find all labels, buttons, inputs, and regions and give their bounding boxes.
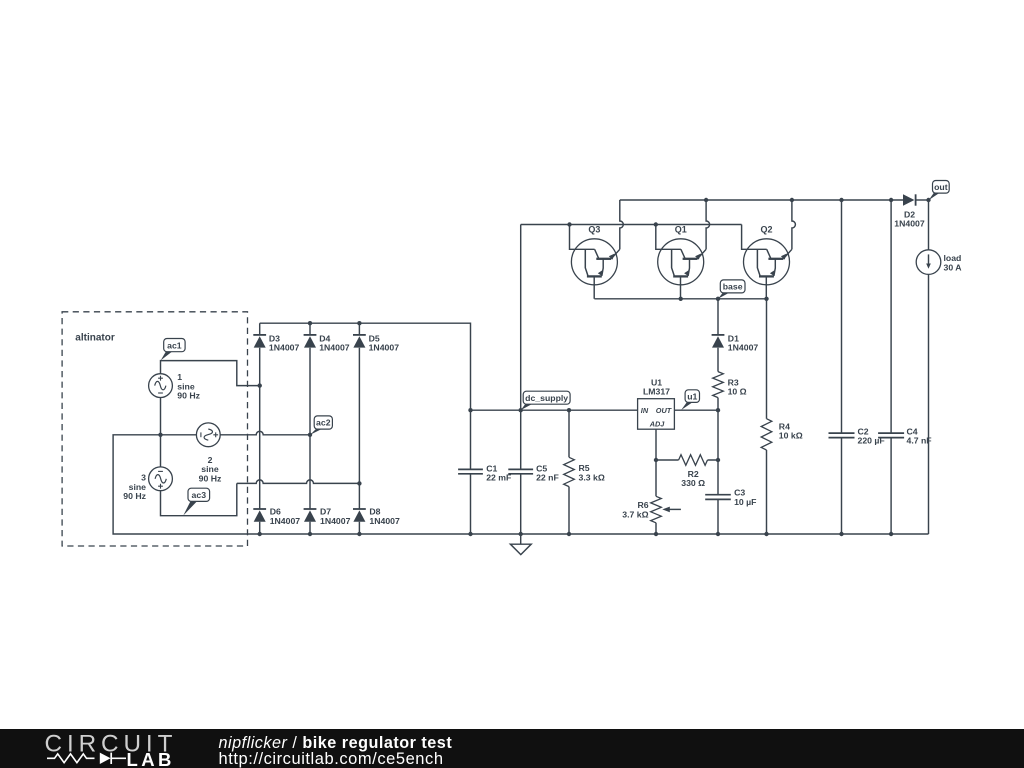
svg-text:10 kΩ: 10 kΩ — [779, 431, 803, 441]
svg-text:10 µF: 10 µF — [734, 497, 756, 507]
footer black bar — [0, 729, 1024, 768]
wire: source3 bottom lead, node ac3, phase 3 to bridge column 3 (hops columns 1,2) — [161, 480, 360, 516]
resistor R3 10 Ω — [713, 372, 747, 398]
wire: bridge column 2 — [309, 323, 311, 534]
voltage source V1 (sine, 90 Hz) — [149, 372, 201, 401]
wire: LM317 ADJ down to R2/R6 node — [655, 429, 657, 460]
svg-text:u1: u1 — [687, 391, 697, 401]
node wye junction dot — [158, 433, 162, 437]
node ac1 (net label) — [161, 339, 185, 361]
node ac3 (net label) — [183, 488, 209, 515]
svg-text:90 Hz: 90 Hz — [199, 474, 222, 484]
svg-text:90 Hz: 90 Hz — [123, 491, 146, 501]
diode D3 1N4007 — [253, 333, 299, 352]
footer title: nipflicker / bike regulator test — [219, 734, 453, 752]
svg-text:4.7 nF: 4.7 nF — [907, 436, 932, 446]
wire: bridge column 1 — [259, 323, 261, 534]
CircuitLab logo resistor-diode glyph and LAB — [47, 749, 175, 768]
altinator enclosure dashed box — [62, 312, 247, 546]
node dots: bottom rail junctions — [258, 532, 894, 536]
capacitor C1 22 mF — [458, 464, 511, 483]
svg-text:30 A: 30 A — [944, 262, 963, 272]
wire: source3 top lead from wye junction — [160, 435, 162, 467]
svg-text:OUT: OUT — [656, 406, 672, 415]
wire: OUT node down to R2 right node — [717, 410, 719, 460]
wire: source1 top lead to node ac1 and to bridge column 1 — [161, 361, 260, 386]
node u1 (net label) — [681, 390, 699, 410]
svg-text:ac2: ac2 — [316, 418, 331, 428]
svg-text:1N4007: 1N4007 — [320, 516, 351, 526]
wire: bridge column 3 — [358, 323, 360, 534]
svg-text:ac1: ac1 — [167, 340, 182, 350]
node dc_supply (net label) — [521, 391, 570, 410]
wire: dc_supply rail to LM317 IN — [471, 409, 638, 411]
diode D7 1N4007 — [304, 507, 351, 526]
svg-text:ADJ: ADJ — [649, 420, 666, 429]
svg-text:Q3: Q3 — [588, 224, 600, 234]
svg-text:http://circuitlab.com/ce5ench: http://circuitlab.com/ce5ench — [219, 750, 444, 768]
wire: LM317 OUT to R3/C3 node — [674, 409, 718, 411]
capacitor C4 4.7 nF — [878, 200, 932, 534]
wire: base rail connecting Q3,Q1,Q2 bases — [594, 298, 766, 300]
wire: D2 cathode to out node — [916, 199, 929, 201]
wire: collector rail (dc_supply to transistor collectors) — [521, 224, 742, 226]
svg-text:10 Ω: 10 Ω — [728, 387, 747, 397]
wire: load bottom lead — [928, 274, 930, 534]
svg-text:dc_supply: dc_supply — [525, 393, 568, 403]
svg-text:22 nF: 22 nF — [536, 473, 559, 483]
footer url — [219, 750, 444, 768]
svg-text:3.3 kΩ: 3.3 kΩ — [579, 472, 605, 482]
CircuitLab logo wordmark CIRCUIT — [45, 731, 178, 758]
wire: bottom ground rail with wye-loop (left) and load return riser (right) — [113, 435, 928, 534]
svg-text:1N4007: 1N4007 — [269, 343, 300, 353]
svg-text:LAB: LAB — [127, 749, 175, 768]
resistor R2 330 Ω — [656, 455, 718, 488]
svg-text:base: base — [723, 282, 743, 292]
wire: emitter top rail to D2 anode — [620, 199, 903, 201]
wire: bridge positive rail down to C1 / dc_supply — [260, 323, 471, 534]
wire: collector rail riser / C5 column down to ground — [520, 225, 522, 535]
capacitor C2 220 µF — [829, 200, 885, 534]
diode D4 1N4007 — [304, 333, 350, 352]
svg-text:22 mF: 22 mF — [486, 473, 511, 483]
op-amp/regulator U1 LM317 — [638, 378, 675, 430]
diode D5 1N4007 — [353, 333, 399, 352]
svg-text:1N4007: 1N4007 — [894, 219, 925, 229]
transistor Q2 (NPN darlington) — [742, 200, 796, 299]
current source load 30 A — [916, 250, 962, 275]
ground symbol — [510, 534, 531, 555]
svg-text:1N4007: 1N4007 — [369, 343, 400, 353]
wire: base rail down through D1/R3 to OUT node — [717, 299, 719, 410]
capacitor C3 10 µF — [705, 460, 756, 534]
svg-text:330 Ω: 330 Ω — [681, 478, 705, 488]
svg-text:3.7 kΩ: 3.7 kΩ — [622, 509, 648, 519]
svg-text:1N4007: 1N4007 — [319, 343, 350, 353]
wire: source1 bottom lead to wye junction — [160, 398, 162, 435]
wire: phase 2 from source2 to bridge column 2 (hops column 1) — [220, 431, 310, 434]
svg-text:out: out — [934, 182, 948, 192]
resistor R5 3.3 kΩ — [564, 410, 605, 534]
diode D2 1N4007 — [894, 194, 925, 228]
svg-text:90 Hz: 90 Hz — [177, 391, 200, 401]
node base (net label) — [718, 280, 745, 299]
diode D1 1N4007 — [712, 334, 759, 353]
node out (net label) — [929, 181, 950, 201]
capacitor C5 22 nF — [508, 464, 559, 483]
svg-text:ac3: ac3 — [192, 490, 207, 500]
wire: out node down to load — [928, 200, 930, 250]
svg-text:altinator: altinator — [75, 333, 115, 344]
node ac2 (net label) — [310, 416, 332, 435]
svg-text:1N4007: 1N4007 — [728, 343, 759, 353]
svg-text:LM317: LM317 — [643, 386, 670, 396]
transistor Q3 (NPN darlington) — [570, 200, 624, 299]
svg-text:Q2: Q2 — [760, 224, 772, 234]
potentiometer R6 3.7 kΩ — [622, 460, 681, 534]
voltage source V3 (sine, 90 Hz) — [123, 467, 172, 501]
node dots: top rail taps and dc_supply taps and ground rail taps — [468, 198, 930, 462]
wire: source2 left lead across wye junction — [161, 434, 197, 436]
transistor Q1 (NPN darlington) — [656, 200, 710, 299]
svg-text:1N4007: 1N4007 — [270, 516, 301, 526]
diode D6 1N4007 — [253, 507, 300, 526]
node dots on rails — [567, 198, 794, 301]
resistor R4 10 kΩ — [761, 299, 803, 534]
svg-text:1N4007: 1N4007 — [369, 516, 400, 526]
svg-text:Q1: Q1 — [675, 224, 687, 234]
svg-text:IN: IN — [641, 406, 649, 415]
diode D8 1N4007 — [353, 507, 400, 526]
voltage source V2 (sine, 90 Hz) — [196, 423, 222, 484]
node dots: phase taps and bridge rail junctions — [258, 321, 362, 486]
